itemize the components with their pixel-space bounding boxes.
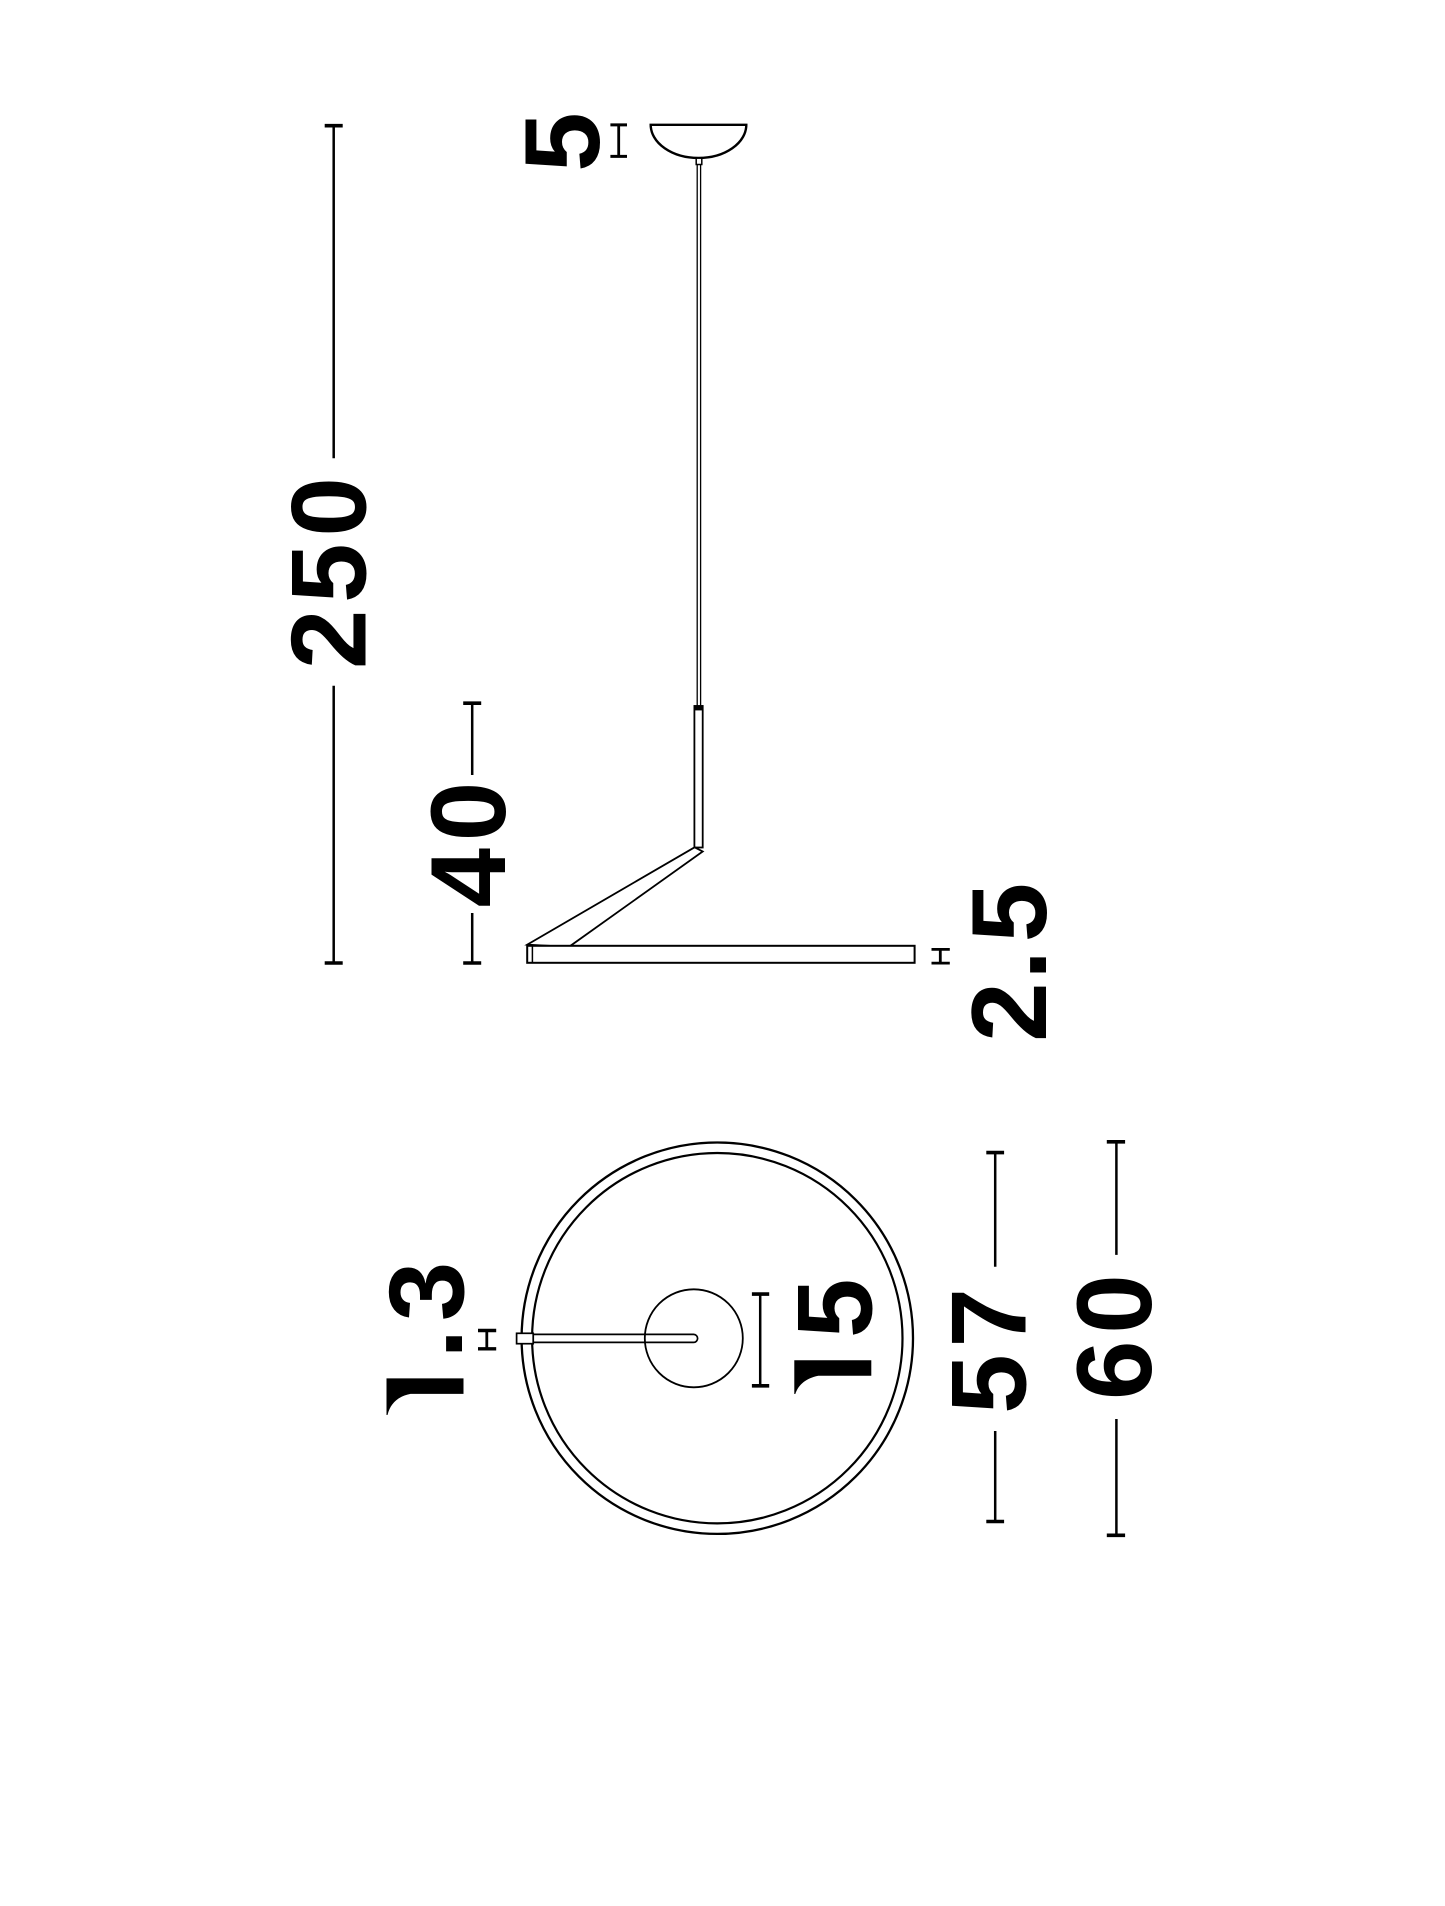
svg-text:.: . — [365, 1329, 485, 1359]
svg-text:3: 3 — [367, 1262, 487, 1322]
svg-text:5: 5 — [502, 112, 622, 172]
svg-text:2: 2 — [949, 982, 1069, 1042]
svg-text:57: 57 — [929, 1281, 1049, 1413]
svg-text:5: 5 — [949, 883, 1069, 943]
svg-text:5: 5 — [774, 1278, 894, 1338]
svg-text:.: . — [949, 950, 1069, 980]
svg-text:40: 40 — [408, 775, 528, 907]
svg-text:250: 250 — [269, 470, 389, 669]
svg-text:60: 60 — [1054, 1268, 1174, 1400]
